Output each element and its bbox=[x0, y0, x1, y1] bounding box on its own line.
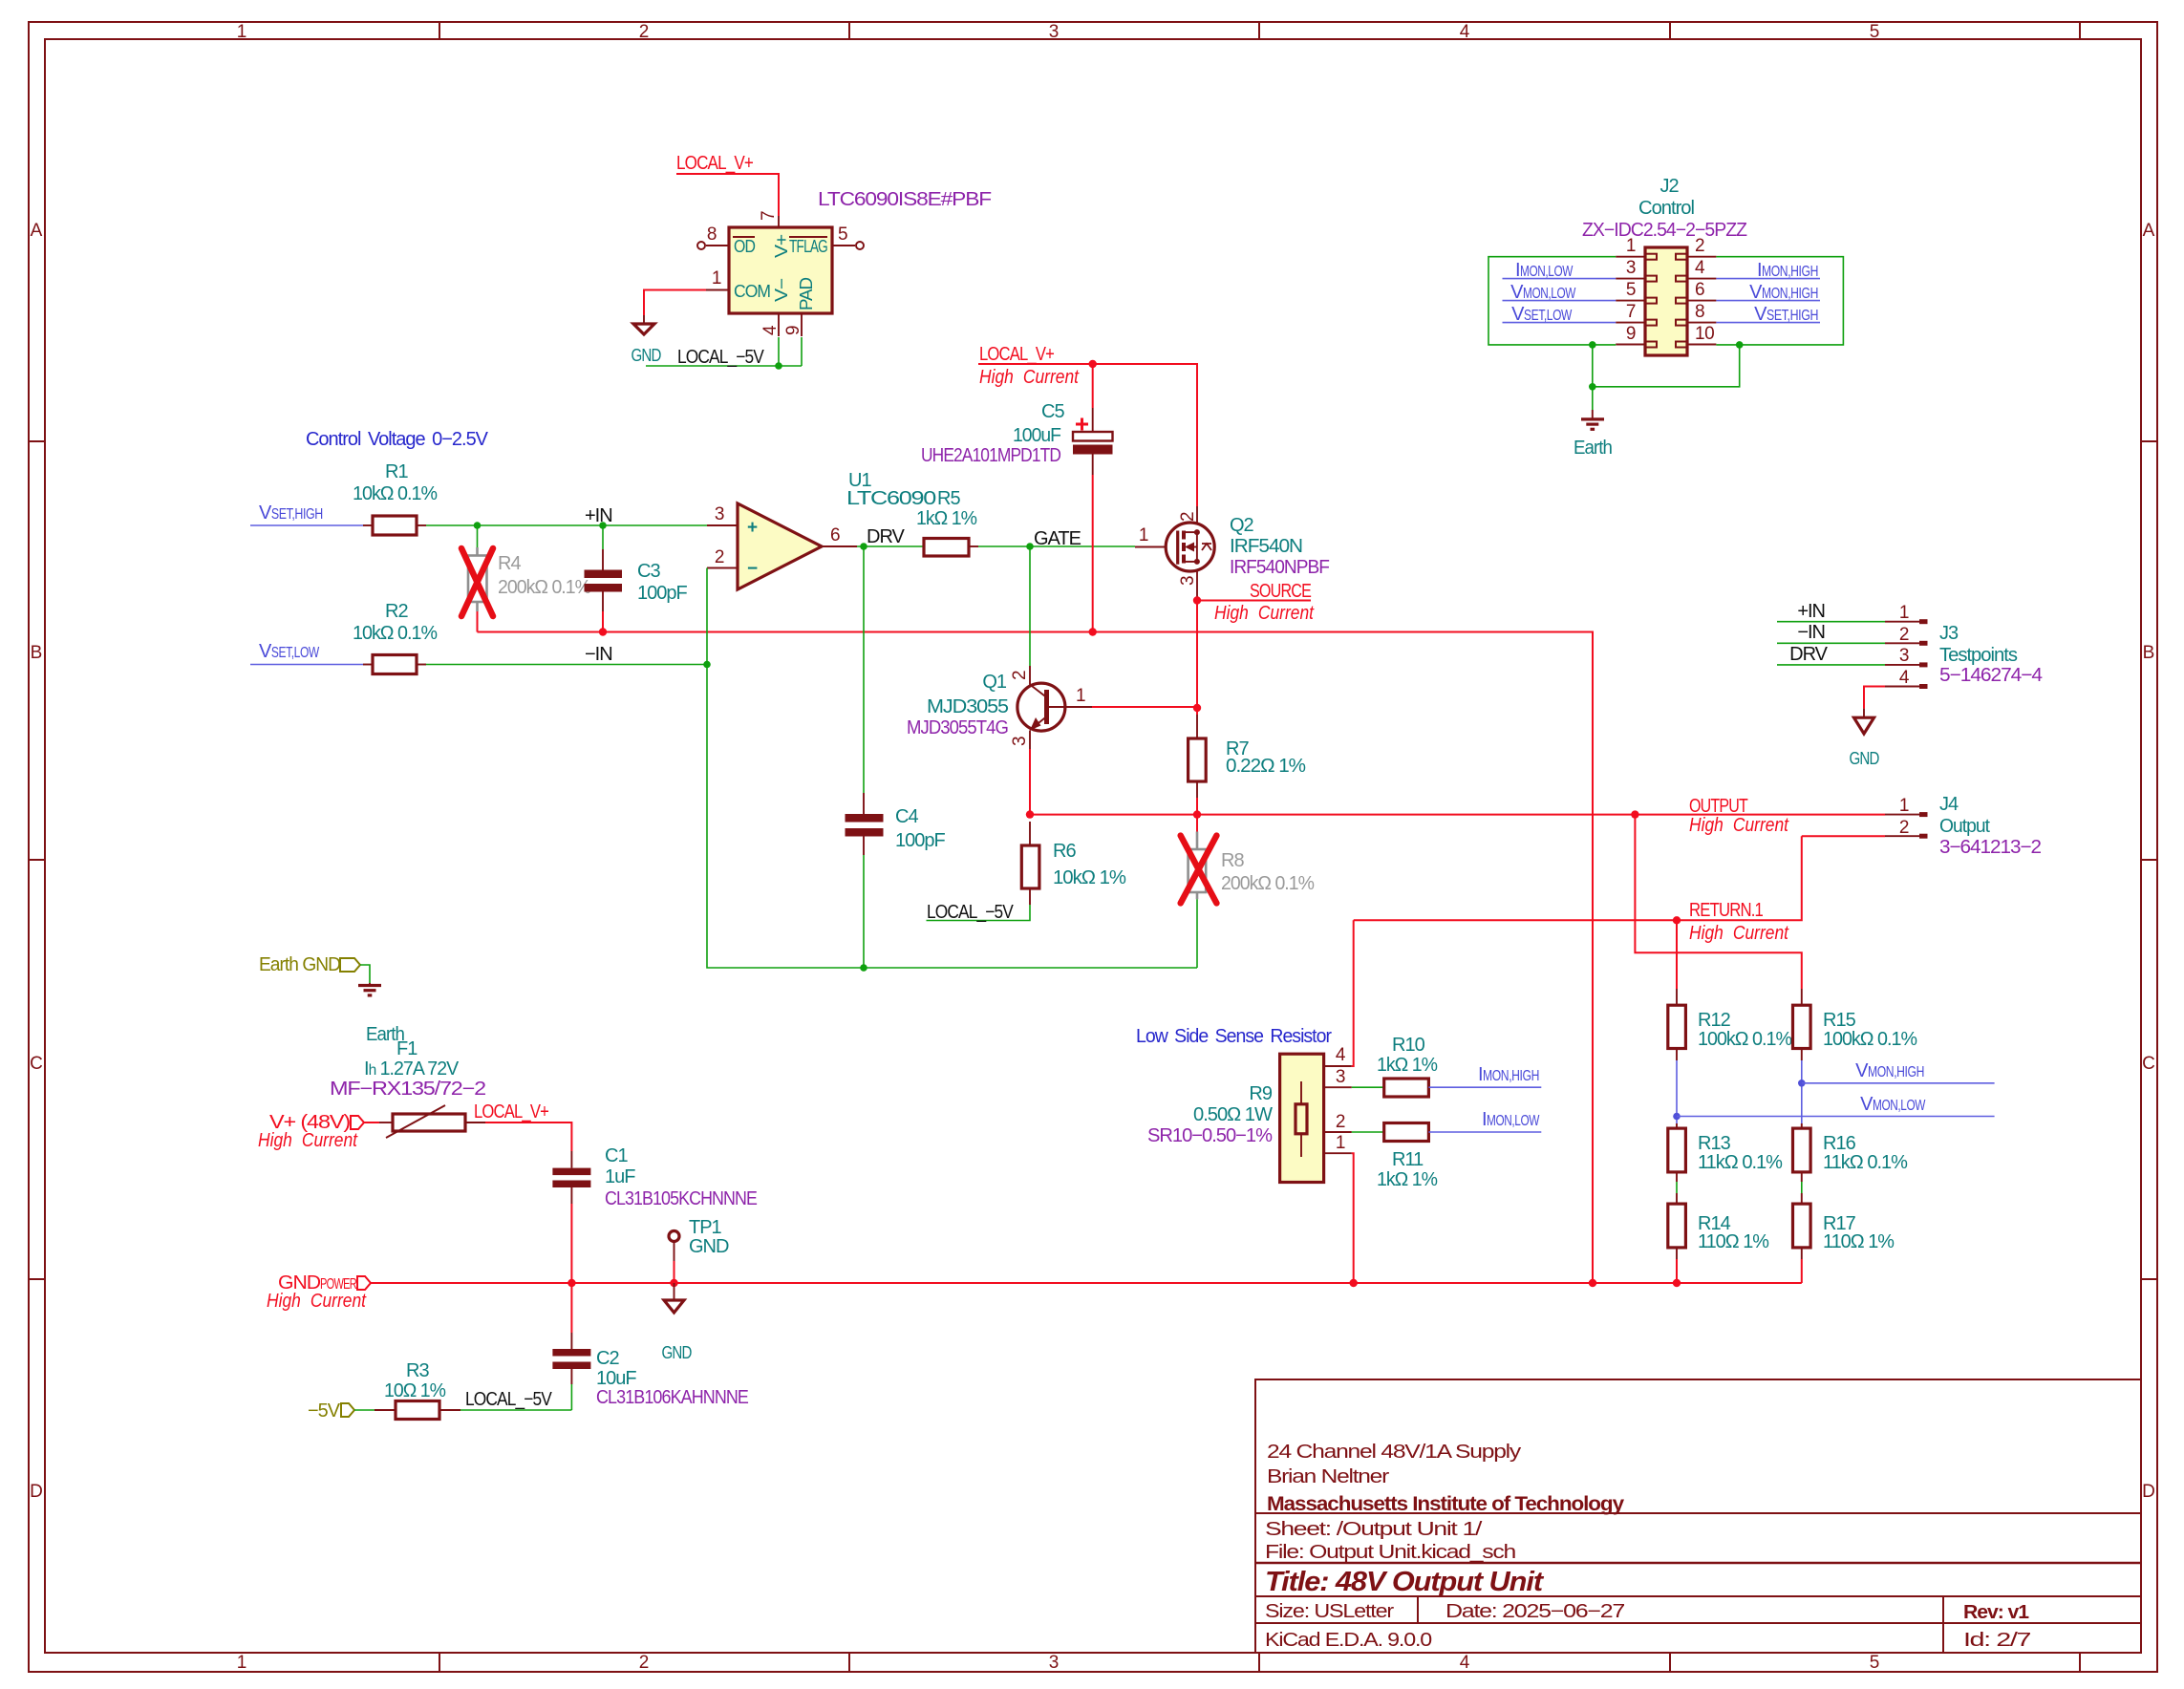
svg-text:200kΩ 0.1%: 200kΩ 0.1% bbox=[498, 577, 591, 598]
wire Q1 base to SOURCE trunk bbox=[1092, 706, 1197, 708]
svg-text:LTC6090IS8E#PBF: LTC6090IS8E#PBF bbox=[818, 189, 992, 210]
svg-text:GND: GND bbox=[632, 346, 662, 365]
pin 3 Q2 source bbox=[1196, 569, 1198, 601]
svg-text:2: 2 bbox=[1010, 671, 1030, 680]
svg-text:24 Channel 48V/1A Supply: 24 Channel 48V/1A Supply bbox=[1267, 1442, 1521, 1463]
svg-text:Output: Output bbox=[1939, 816, 1990, 837]
svg-text:110Ω 1%: 110Ω 1% bbox=[1823, 1231, 1895, 1252]
svg-text:7: 7 bbox=[1626, 302, 1636, 322]
svg-text:1kΩ 1%: 1kΩ 1% bbox=[1377, 1055, 1438, 1076]
svg-text:Date: 2025−06−27: Date: 2025−06−27 bbox=[1445, 1601, 1625, 1622]
svg-text:+IN: +IN bbox=[1797, 601, 1825, 622]
svg-text:IMON,LOW: IMON,LOW bbox=[1482, 1109, 1540, 1130]
svg-text:High Current: High Current bbox=[979, 367, 1080, 388]
svg-text:V−: V− bbox=[772, 278, 791, 302]
junction R7 / R8 bbox=[1193, 810, 1201, 818]
svg-text:3: 3 bbox=[1178, 576, 1198, 586]
svg-text:0.22Ω 1%: 0.22Ω 1% bbox=[1226, 756, 1306, 777]
svg-text:Id: 2/7: Id: 2/7 bbox=[1963, 1630, 2031, 1651]
svg-text:−5V: −5V bbox=[308, 1400, 341, 1422]
svg-text:5−146274−4: 5−146274−4 bbox=[1939, 665, 2043, 686]
wire VMON,HIGH bbox=[1802, 1082, 1995, 1084]
svg-text:Q1: Q1 bbox=[982, 672, 1007, 693]
svg-text:R6: R6 bbox=[1053, 841, 1076, 862]
svg-text:R12: R12 bbox=[1698, 1010, 1731, 1031]
wire LOCAL_V+ to Q2 drain bbox=[978, 364, 1197, 506]
wire R12-R13 link bbox=[1676, 1060, 1678, 1123]
svg-text:Control Voltage 0−2.5V: Control Voltage 0−2.5V bbox=[306, 429, 489, 450]
svg-text:10uF: 10uF bbox=[596, 1368, 636, 1389]
connector J4 pin 2 bbox=[1802, 835, 1885, 837]
svg-text:DRV: DRV bbox=[1789, 644, 1829, 665]
svg-text:10kΩ 0.1%: 10kΩ 0.1% bbox=[353, 623, 438, 644]
svg-text:IRF540N: IRF540N bbox=[1230, 536, 1302, 557]
wire -5V to R3 bbox=[354, 1409, 375, 1411]
junction C3 bottom bbox=[599, 628, 607, 635]
svg-text:2: 2 bbox=[1899, 818, 1909, 838]
resistor R9 body bbox=[1280, 1054, 1324, 1182]
svg-text:100pF: 100pF bbox=[637, 583, 687, 604]
pin 1 R9 bbox=[1324, 1152, 1352, 1154]
svg-text:R13: R13 bbox=[1698, 1133, 1731, 1154]
svg-text:VSET,LOW: VSET,LOW bbox=[1511, 304, 1573, 325]
svg-text:J4: J4 bbox=[1939, 794, 1959, 815]
svg-text:GND: GND bbox=[662, 1343, 693, 1362]
junction C3 top bbox=[599, 522, 607, 529]
svg-text:+: + bbox=[747, 518, 758, 538]
pin 1 J2 bbox=[1616, 256, 1645, 258]
svg-text:2: 2 bbox=[1178, 512, 1198, 522]
svg-text:High Current: High Current bbox=[258, 1130, 358, 1151]
pin 3 U1 bbox=[707, 524, 738, 526]
wire -IN net bbox=[426, 664, 707, 666]
svg-text:Title: 48V Output Unit: Title: 48V Output Unit bbox=[1265, 1567, 1544, 1597]
resistor R8 (DNP) bbox=[1196, 815, 1198, 832]
svg-text:IRF540NPBF: IRF540NPBF bbox=[1230, 557, 1330, 578]
svg-text:2: 2 bbox=[1336, 1112, 1345, 1132]
wire Earth GND to earth symbol bbox=[360, 965, 370, 983]
wire -IN to J3 pin2 bbox=[1777, 642, 1885, 644]
svg-text:1: 1 bbox=[1336, 1133, 1345, 1153]
wire IMON,LOW to pin 3 bbox=[1503, 278, 1617, 280]
svg-text:5: 5 bbox=[1870, 22, 1880, 42]
svg-text:R4: R4 bbox=[498, 553, 521, 574]
svg-text:TFLAG: TFLAG bbox=[789, 237, 827, 256]
svg-text:3: 3 bbox=[1899, 646, 1909, 666]
junction earth link bbox=[1589, 383, 1596, 391]
junction SOURCE bbox=[1193, 596, 1201, 604]
wire VSET,LOW to pin 7 bbox=[1503, 322, 1617, 324]
svg-text:CL31B105KCHNNNE: CL31B105KCHNNNE bbox=[605, 1188, 758, 1209]
junction C5 top bbox=[1089, 360, 1097, 368]
wire R6 to LOCAL_-5V bbox=[927, 905, 1031, 921]
svg-text:LOCAL_−5V: LOCAL_−5V bbox=[677, 347, 764, 368]
pin 7 J2 bbox=[1616, 322, 1645, 324]
svg-text:100kΩ 0.1%: 100kΩ 0.1% bbox=[1823, 1029, 1917, 1050]
resistor R2 bbox=[363, 664, 373, 666]
svg-text:9: 9 bbox=[1626, 324, 1636, 344]
wire J2 pin1 to pin9 (earth loop left) bbox=[1488, 257, 1616, 345]
wire VMON,HIGH to pin 6 bbox=[1716, 300, 1820, 302]
svg-text:D: D bbox=[2142, 1482, 2155, 1502]
ground earth (J2) bbox=[1592, 410, 1594, 419]
svg-text:3: 3 bbox=[1336, 1067, 1345, 1087]
wire +IN to J3 pin1 bbox=[1777, 621, 1885, 623]
connector J3 pins bbox=[1885, 621, 1919, 623]
wire V+ to F1 bbox=[364, 1122, 379, 1123]
resistor R10 bbox=[1352, 1086, 1384, 1088]
connector J4 pin 1 bbox=[1885, 814, 1919, 816]
pin 1 Q2 gate bbox=[1135, 546, 1167, 548]
resistor R7 bbox=[1196, 715, 1198, 738]
wire drop to earth bbox=[1592, 345, 1594, 410]
wire U1 COM to GND bbox=[644, 290, 706, 316]
svg-text:C1: C1 bbox=[605, 1145, 628, 1166]
junction VMON,HIGH bbox=[1798, 1080, 1806, 1087]
wire Q1 emitter to OUTPUT bbox=[1029, 749, 1031, 815]
svg-text:1kΩ 1%: 1kΩ 1% bbox=[1377, 1169, 1438, 1190]
pin 3 R9 bbox=[1324, 1086, 1352, 1088]
svg-text:LOCAL_−5V: LOCAL_−5V bbox=[465, 1389, 552, 1410]
wire SOURCE trunk bbox=[1196, 601, 1198, 716]
svg-text:R3: R3 bbox=[406, 1360, 429, 1381]
wire IMON,HIGH to pin 4 bbox=[1716, 278, 1820, 280]
svg-text:IMON,LOW: IMON,LOW bbox=[1515, 260, 1574, 281]
svg-text:7: 7 bbox=[759, 211, 779, 221]
connector J2 body bbox=[1645, 247, 1687, 355]
svg-text:−: − bbox=[747, 559, 758, 579]
svg-text:KiCad E.D.A. 9.0.0: KiCad E.D.A. 9.0.0 bbox=[1265, 1630, 1432, 1651]
svg-text:10kΩ 1%: 10kΩ 1% bbox=[1053, 867, 1126, 888]
junction GATE bbox=[1026, 543, 1034, 550]
pin 2 U1 bbox=[707, 567, 738, 569]
wire VMON,LOW bbox=[1677, 1116, 1995, 1118]
svg-text:2: 2 bbox=[1695, 236, 1704, 256]
svg-text:A: A bbox=[31, 221, 43, 241]
svg-text:LOCAL_V+: LOCAL_V+ bbox=[676, 153, 753, 174]
wire DRV net bbox=[857, 545, 924, 547]
svg-text:110Ω 1%: 110Ω 1% bbox=[1698, 1231, 1769, 1252]
svg-text:1: 1 bbox=[237, 22, 247, 42]
svg-text:3: 3 bbox=[1049, 1653, 1060, 1673]
resistor R16 bbox=[1793, 1128, 1811, 1172]
pin 7 (V+) bbox=[778, 216, 780, 227]
pin 3 J2 bbox=[1616, 278, 1645, 280]
svg-text:100pF: 100pF bbox=[895, 830, 945, 851]
wire RETURN.1 bbox=[1354, 836, 1802, 920]
svg-text:2: 2 bbox=[715, 547, 724, 567]
wire VMON,LOW to pin 5 bbox=[1503, 300, 1617, 302]
junction R4 top bbox=[474, 522, 482, 529]
svg-text:VSET,LOW: VSET,LOW bbox=[259, 641, 320, 662]
svg-text:Ih 1.27A 72V: Ih 1.27A 72V bbox=[364, 1058, 460, 1080]
svg-text:High Current: High Current bbox=[1689, 923, 1789, 944]
svg-text:High Current: High Current bbox=[1214, 603, 1315, 624]
junction -IN feedback bbox=[703, 661, 711, 669]
svg-text:10kΩ 0.1%: 10kΩ 0.1% bbox=[353, 483, 438, 504]
resistor R12 bbox=[1676, 920, 1678, 989]
svg-text:100uF: 100uF bbox=[1013, 425, 1061, 446]
svg-text:1kΩ 1%: 1kΩ 1% bbox=[916, 508, 977, 529]
svg-text:11kΩ 0.1%: 11kΩ 0.1% bbox=[1823, 1152, 1908, 1173]
svg-text:1: 1 bbox=[1139, 525, 1148, 545]
svg-text:10Ω 1%: 10Ω 1% bbox=[384, 1380, 446, 1401]
svg-text:VSET,HIGH: VSET,HIGH bbox=[1754, 304, 1818, 325]
svg-text:0.50Ω 1W: 0.50Ω 1W bbox=[1193, 1104, 1273, 1125]
svg-text:UHE2A101MPD1TD: UHE2A101MPD1TD bbox=[921, 445, 1060, 466]
svg-text:SOURCE: SOURCE bbox=[1250, 581, 1312, 602]
svg-text:TP1: TP1 bbox=[689, 1217, 722, 1238]
svg-text:C5: C5 bbox=[1041, 401, 1064, 422]
wire R4 bottom to gnd-sense line bbox=[477, 611, 479, 632]
resistor R15 bbox=[1801, 989, 1803, 1005]
svg-text:COM: COM bbox=[734, 282, 770, 301]
pin 10 J2 bbox=[1687, 344, 1716, 346]
svg-text:3: 3 bbox=[1010, 737, 1030, 746]
svg-text:V+: V+ bbox=[772, 234, 791, 258]
svg-text:C2: C2 bbox=[596, 1348, 619, 1369]
pin 5 J2 bbox=[1616, 300, 1645, 302]
svg-text:R15: R15 bbox=[1823, 1010, 1856, 1031]
capacitor C1 bbox=[570, 1151, 572, 1168]
junction Q1 emitter / R6 bbox=[1026, 810, 1034, 818]
svg-text:11kΩ 0.1%: 11kΩ 0.1% bbox=[1698, 1152, 1783, 1173]
svg-text:1: 1 bbox=[712, 268, 721, 289]
svg-text:2: 2 bbox=[639, 22, 650, 42]
ground GND (J3) bbox=[1863, 709, 1865, 718]
wire J2 pin2 to pin10 (earth loop right) bbox=[1716, 257, 1843, 345]
pin 2 Q2 drain bbox=[1196, 506, 1198, 524]
wire VSET,HIGH to R1 bbox=[250, 524, 363, 526]
svg-text:1: 1 bbox=[1626, 236, 1636, 256]
svg-text:R10: R10 bbox=[1392, 1035, 1425, 1056]
wire VSET,LOW to R2 bbox=[250, 664, 363, 666]
svg-text:LTC6090: LTC6090 bbox=[846, 488, 936, 509]
svg-text:DRV: DRV bbox=[867, 526, 906, 547]
svg-text:R11: R11 bbox=[1392, 1149, 1424, 1170]
op-amp U1 LTC6090 bbox=[738, 503, 822, 589]
junction VMON,LOW bbox=[1673, 1113, 1681, 1121]
svg-text:Brian Neltner: Brian Neltner bbox=[1267, 1466, 1390, 1487]
svg-text:A: A bbox=[2143, 221, 2155, 241]
junction Q1 base / R7 bbox=[1193, 704, 1201, 712]
svg-text:IMON,HIGH: IMON,HIGH bbox=[1478, 1064, 1539, 1085]
svg-text:5: 5 bbox=[838, 224, 847, 245]
svg-text:B: B bbox=[2143, 643, 2155, 663]
svg-text:C: C bbox=[30, 1054, 43, 1074]
resistor R1 bbox=[363, 524, 373, 526]
svg-text:5: 5 bbox=[1626, 280, 1636, 300]
DNP cross R8 bbox=[1181, 836, 1217, 904]
wire LOCAL_V+ to C1 bbox=[485, 1122, 571, 1151]
svg-text:3: 3 bbox=[715, 504, 724, 524]
wire gnd-sense line (R4/C3/C5 to GNDPOWER) bbox=[478, 632, 1594, 1284]
svg-text:B: B bbox=[31, 643, 43, 663]
svg-text:3: 3 bbox=[1049, 22, 1060, 42]
DNP cross R4 bbox=[461, 548, 493, 616]
svg-text:VSET,HIGH: VSET,HIGH bbox=[259, 502, 323, 524]
svg-text:6: 6 bbox=[830, 525, 840, 545]
pin 2 Q1 collector bbox=[1029, 666, 1031, 685]
wire feedback from pin2 down to bottom rail bbox=[707, 568, 1197, 969]
wire R9 pin1 to GNDPOWER bbox=[1352, 1153, 1354, 1283]
svg-text:R16: R16 bbox=[1823, 1133, 1856, 1154]
svg-text:LOCAL_−5V: LOCAL_−5V bbox=[927, 902, 1014, 923]
junction U1 V- / PAD bbox=[775, 362, 782, 370]
junction OUTPUT to divider bbox=[1631, 810, 1638, 818]
wire GNDPOWER trunk bbox=[371, 1282, 1802, 1284]
ground earth (left) bbox=[369, 983, 371, 986]
svg-text:R1: R1 bbox=[385, 461, 408, 482]
svg-text:4: 4 bbox=[760, 325, 781, 335]
svg-text:+IN: +IN bbox=[585, 505, 612, 526]
svg-text:VMON,LOW: VMON,LOW bbox=[1860, 1094, 1926, 1115]
svg-text:GND: GND bbox=[689, 1236, 729, 1257]
svg-text:−IN: −IN bbox=[1797, 622, 1825, 643]
svg-text:4: 4 bbox=[1899, 668, 1910, 688]
svg-text:ZX−IDC2.54−2−5PZZ: ZX−IDC2.54−2−5PZZ bbox=[1582, 220, 1747, 241]
wire R8 bottom to feedback rail bbox=[1196, 899, 1198, 968]
svg-text:R5: R5 bbox=[937, 488, 960, 509]
svg-text:200kΩ 0.1%: 200kΩ 0.1% bbox=[1221, 873, 1315, 894]
svg-text:Low Side Sense Resistor: Low Side Sense Resistor bbox=[1136, 1026, 1332, 1047]
svg-text:High Current: High Current bbox=[267, 1291, 367, 1312]
pin 9 J2 bbox=[1616, 344, 1645, 346]
capacitor C3 bbox=[602, 525, 604, 549]
svg-text:VMON,HIGH: VMON,HIGH bbox=[1749, 282, 1818, 303]
wire GATE to Q1 collector bbox=[1029, 546, 1031, 666]
wire earth link under J2 bbox=[1593, 345, 1740, 387]
svg-text:Massachusetts Institute of Tec: Massachusetts Institute of Technology bbox=[1267, 1493, 1624, 1515]
junction C1/C2 bbox=[567, 1279, 575, 1287]
pin 6 J2 bbox=[1687, 300, 1716, 302]
svg-text:2: 2 bbox=[1899, 625, 1909, 645]
svg-text:IMON,HIGH: IMON,HIGH bbox=[1757, 260, 1818, 281]
wire R9 pin4 to RETURN.1 bbox=[1352, 920, 1354, 1066]
wire OUTPUT branch to R15 bbox=[1635, 815, 1801, 989]
wire R15-R16 link bbox=[1801, 1060, 1803, 1123]
wire IMON,LOW stub bbox=[1428, 1131, 1541, 1133]
capacitor C5 (polarized) bbox=[1092, 364, 1094, 408]
junction J2 pin10 wire bbox=[1736, 341, 1744, 349]
svg-text:PAD: PAD bbox=[797, 277, 816, 310]
junction R14 bbox=[1673, 1279, 1681, 1287]
title block bbox=[1255, 1379, 2141, 1653]
svg-text:R8: R8 bbox=[1221, 850, 1244, 871]
svg-text:1: 1 bbox=[1076, 686, 1085, 706]
svg-text:10: 10 bbox=[1695, 324, 1714, 344]
svg-text:F1: F1 bbox=[396, 1038, 418, 1059]
svg-text:4: 4 bbox=[1460, 1653, 1470, 1673]
wire VSET,HIGH to pin 8 bbox=[1716, 322, 1820, 324]
svg-text:Sheet: /Output Unit 1/: Sheet: /Output Unit 1/ bbox=[1265, 1519, 1483, 1540]
capacitor C2 bbox=[570, 1283, 572, 1333]
pin 8 (OD) bbox=[706, 245, 729, 246]
svg-text:File: Output Unit.kicad_sch: File: Output Unit.kicad_sch bbox=[1265, 1542, 1515, 1563]
resistor R5 bbox=[924, 539, 969, 557]
wire SOURCE stub bbox=[1197, 600, 1311, 602]
junction R9 pin1 bbox=[1350, 1279, 1358, 1287]
pin 2 J2 bbox=[1687, 256, 1716, 258]
svg-text:MF−RX135/72−2: MF−RX135/72−2 bbox=[330, 1079, 486, 1100]
svg-text:Rev: v1: Rev: v1 bbox=[1963, 1602, 2029, 1623]
svg-text:Size: USLetter: Size: USLetter bbox=[1265, 1601, 1395, 1622]
wire LOCAL_V+ to U1 pin 7 bbox=[676, 174, 779, 216]
pin 6 U1 bbox=[822, 545, 857, 547]
svg-text:Earth: Earth bbox=[1574, 438, 1612, 459]
wire DRV to J3 pin3 bbox=[1777, 664, 1885, 666]
wire J3 pin4 to GND bbox=[1864, 687, 1885, 709]
svg-text:3−641213−2: 3−641213−2 bbox=[1939, 837, 2042, 858]
svg-text:−IN: −IN bbox=[585, 644, 612, 665]
test point TP1 bbox=[669, 1231, 679, 1242]
resistor R17 bbox=[1793, 1204, 1811, 1248]
capacitor C4 bbox=[863, 546, 865, 793]
svg-text:1: 1 bbox=[1899, 796, 1909, 816]
junction RETURN.1 / R12 bbox=[1673, 916, 1681, 924]
svg-text:MJD3055T4G: MJD3055T4G bbox=[907, 717, 1008, 738]
svg-text:OD: OD bbox=[734, 237, 756, 256]
svg-text:C: C bbox=[2142, 1054, 2155, 1074]
wire LOCAL_-5V under U1 bbox=[778, 337, 780, 366]
svg-text:6: 6 bbox=[1695, 280, 1704, 300]
svg-text:5: 5 bbox=[1870, 1653, 1880, 1673]
pin 2 R9 bbox=[1324, 1131, 1352, 1133]
svg-text:LOCAL_V+: LOCAL_V+ bbox=[979, 344, 1054, 365]
svg-text:MJD3055: MJD3055 bbox=[927, 696, 1009, 717]
pin 9 (PAD) bbox=[801, 313, 803, 336]
junction gnd-sense bbox=[1589, 1279, 1596, 1287]
junction TP1 bbox=[670, 1279, 677, 1287]
wire LOCAL_-5V (R3 to C2) bbox=[460, 1409, 571, 1411]
junction DRV / C4 bbox=[860, 543, 867, 550]
svg-text:CL31B106KAHNNNE: CL31B106KAHNNNE bbox=[596, 1387, 749, 1408]
wire +IN net bbox=[426, 524, 707, 526]
wire C3 bottom bbox=[602, 611, 604, 632]
svg-text:VMON,LOW: VMON,LOW bbox=[1510, 282, 1576, 303]
resistor R4 (DNP) bbox=[477, 525, 479, 547]
transistor Q1 MJD3055 bbox=[1017, 683, 1065, 731]
svg-text:OUTPUT: OUTPUT bbox=[1689, 796, 1748, 817]
transistor Q2 IRF540N bbox=[1166, 523, 1214, 571]
svg-text:RETURN.1: RETURN.1 bbox=[1689, 900, 1764, 921]
svg-text:Testpoints: Testpoints bbox=[1939, 645, 2018, 666]
resistor R11 bbox=[1352, 1131, 1384, 1133]
svg-text:9: 9 bbox=[783, 326, 803, 335]
junction C4 bottom bbox=[860, 964, 867, 972]
junction C5 bottom bbox=[1089, 628, 1097, 635]
op-amp U1 power body LTC6090 bbox=[729, 227, 832, 313]
resistor R6 bbox=[1029, 822, 1031, 845]
ground GND (U1 COM) bbox=[643, 315, 645, 324]
wire OUTPUT line bbox=[1030, 814, 1885, 816]
pin 4 R9 bbox=[1324, 1065, 1352, 1067]
pin 8 J2 bbox=[1687, 322, 1716, 324]
pin 1 (COM) bbox=[706, 289, 729, 291]
svg-text:2: 2 bbox=[639, 1653, 650, 1673]
svg-text:4: 4 bbox=[1695, 258, 1705, 278]
pin 4 J2 bbox=[1687, 278, 1716, 280]
svg-text:VMON,HIGH: VMON,HIGH bbox=[1855, 1060, 1924, 1081]
svg-text:Earth GND: Earth GND bbox=[259, 954, 341, 975]
wire GATE net bbox=[978, 545, 1135, 547]
resistor R14 bbox=[1668, 1204, 1686, 1248]
svg-text:D: D bbox=[30, 1482, 43, 1502]
svg-text:C4: C4 bbox=[895, 806, 918, 827]
svg-text:8: 8 bbox=[1695, 302, 1704, 322]
svg-text:GATE: GATE bbox=[1034, 528, 1081, 549]
resistor R13 bbox=[1668, 1128, 1686, 1172]
